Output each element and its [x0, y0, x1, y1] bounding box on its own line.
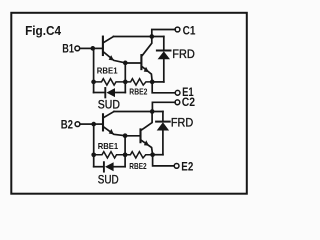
resistor RBE2 lower: [125, 152, 153, 171]
resistor RBE2 upper: [125, 79, 152, 97]
wire B2 to base node: [80, 123, 94, 125]
resistor RBE1 upper: [94, 66, 126, 85]
terminal E2: [174, 160, 193, 174]
svg-text:FRD: FRD: [171, 116, 194, 130]
node Q3 emitter / Q4 base: [123, 133, 128, 138]
node E1 junction: [150, 80, 155, 85]
svg-text:E2: E2: [181, 160, 193, 174]
transistor Q4 base bar: [139, 129, 141, 142]
wire C1 stub: [152, 30, 175, 37]
wire C2 stub: [152, 102, 175, 111]
wire top rail upper: [114, 36, 164, 38]
transistor Q3 emitter: [104, 127, 125, 136]
wire E1 stub: [152, 82, 175, 93]
transistor Q2 base bar: [140, 55, 142, 69]
node RBE1 right: [123, 80, 128, 85]
svg-text:C1: C1: [183, 24, 196, 38]
wire B1 to base node: [80, 47, 94, 49]
transistor Q4 emitter: [142, 140, 153, 154]
diode FRD1: [152, 37, 195, 82]
wire middle column upper: [124, 63, 126, 93]
diode SUD2: [94, 162, 125, 186]
transistor Q3 emitter arrow: [109, 129, 114, 135]
terminal C1: [175, 24, 196, 38]
wire left column upper: [93, 48, 95, 92]
wire left column lower: [93, 124, 95, 167]
node B1 junction: [90, 46, 95, 51]
transistor Q3 collector: [104, 112, 114, 118]
svg-text:C2: C2: [182, 95, 196, 109]
transistor Q2 emitter: [142, 67, 152, 82]
svg-text:RBE2: RBE2: [129, 86, 147, 96]
wire node to Q4 base: [125, 135, 139, 137]
svg-text:SUD: SUD: [98, 173, 119, 187]
border frame: [11, 13, 247, 194]
terminal E1: [175, 85, 194, 99]
node Q1 emitter / Q2 base: [123, 61, 128, 66]
transistor Q1 base bar: [102, 37, 104, 55]
svg-text:RBE1: RBE1: [98, 141, 119, 151]
transistor Q3 base bar: [102, 114, 104, 130]
transistor Q1 emitter: [104, 52, 125, 63]
terminal B2: [61, 117, 80, 131]
transistor Q4 collector: [142, 112, 153, 131]
resistor RBE1 lower: [94, 141, 125, 158]
diode SUD1: [94, 88, 126, 112]
node B2 junction: [91, 122, 96, 127]
svg-text:RBE1: RBE1: [97, 66, 118, 76]
wire B2 node to Q3 base: [94, 123, 102, 125]
node rail C2 junction: [150, 109, 155, 114]
svg-text:RBE2: RBE2: [129, 161, 147, 171]
transistor Q2 collector: [142, 37, 151, 56]
transistor Q2 emitter arrow: [144, 67, 149, 72]
transistor Q1 emitter arrow: [109, 55, 114, 61]
wire B1 node to Q1 base: [93, 47, 102, 49]
diode FRD2: [153, 112, 194, 155]
node rail C1 junction: [149, 34, 154, 39]
terminal C2: [175, 95, 195, 109]
transistor Q4 emitter arrow: [144, 140, 149, 145]
svg-text:Fig.C4: Fig.C4: [25, 23, 62, 38]
wire node to Q2 base: [125, 62, 140, 64]
svg-text:FRD: FRD: [172, 47, 195, 61]
wire middle column lower: [124, 136, 126, 167]
svg-text:B2: B2: [61, 117, 74, 131]
node RBE1 lower left: [91, 152, 96, 157]
wire top rail lower: [114, 111, 163, 113]
svg-text:B1: B1: [62, 41, 74, 55]
node RBE1 lower right: [123, 152, 128, 157]
wire E2 stub: [153, 155, 175, 166]
terminal B1: [62, 41, 79, 55]
transistor Q1 collector: [104, 37, 114, 43]
node RBE1 left: [91, 80, 96, 85]
svg-text:SUD: SUD: [98, 98, 120, 112]
node E2 junction: [150, 152, 155, 157]
